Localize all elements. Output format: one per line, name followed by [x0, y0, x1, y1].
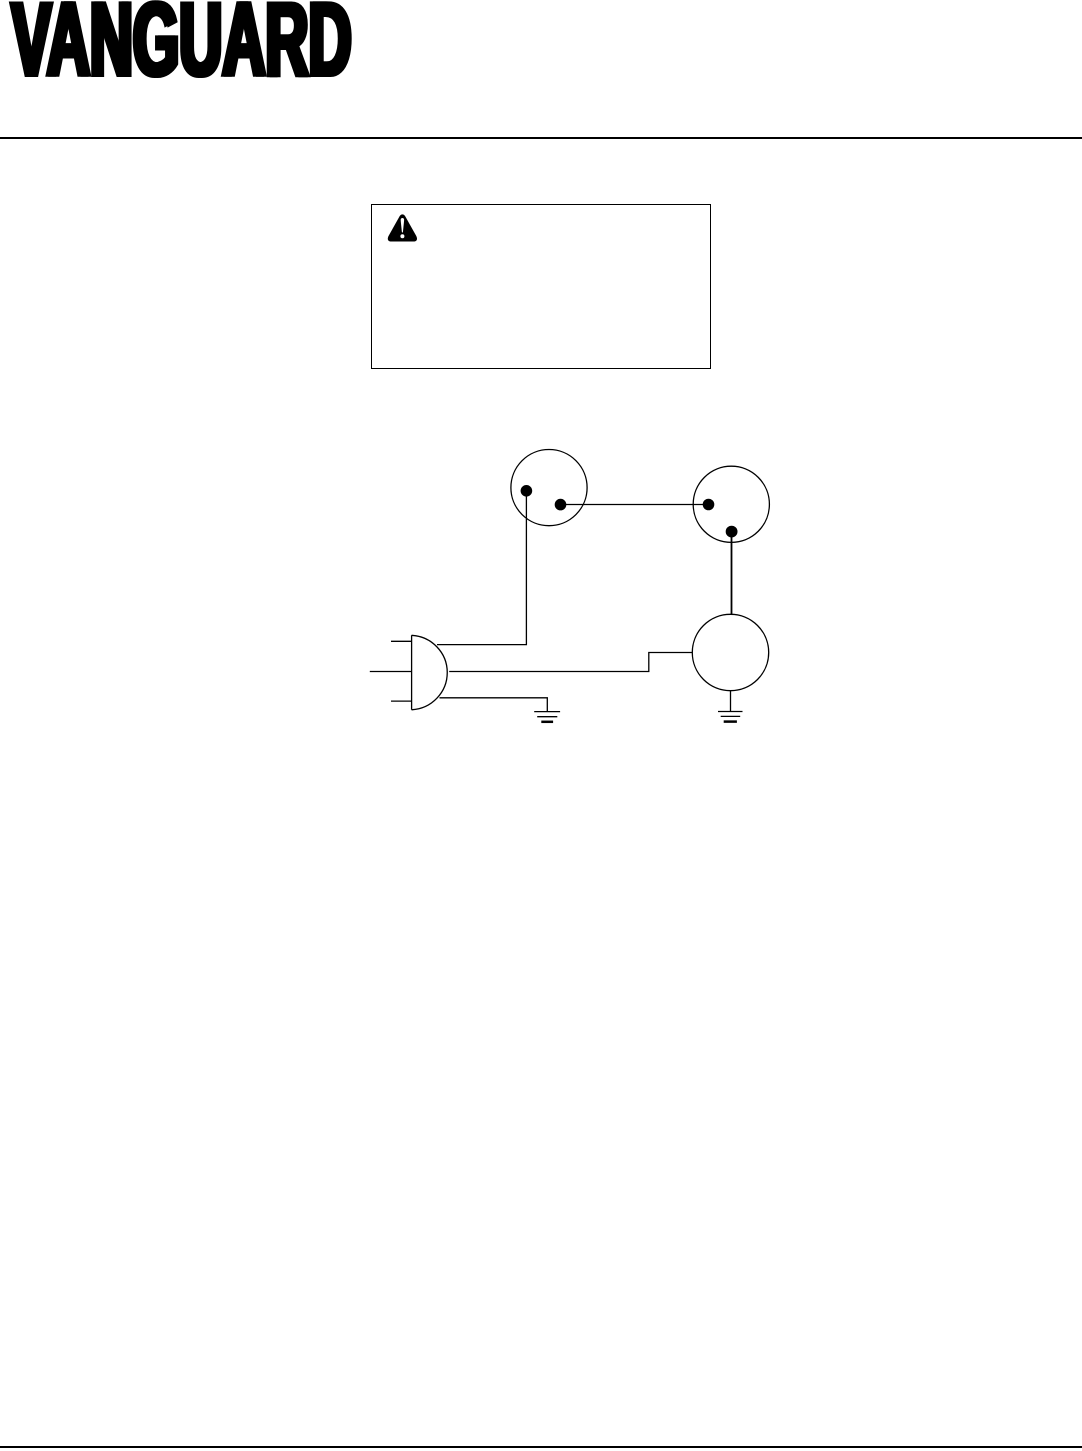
wire P3 to ground G2 — [730, 691, 732, 712]
plug PL1 body — [412, 635, 448, 710]
footer rule — [0, 1446, 1082, 1448]
plug prong middle — [370, 671, 412, 673]
connector circle P3 — [692, 614, 768, 690]
P2 pin 1 dot — [703, 499, 715, 511]
ground G1 — [534, 712, 560, 722]
wire plug to P3 — [449, 653, 692, 672]
P1 pin 1 dot — [521, 485, 533, 497]
wire plug to ground G1 — [440, 698, 548, 712]
ground G2 — [718, 712, 743, 722]
wire P1 pin to P2 pin — [561, 504, 709, 506]
header rule — [0, 137, 1082, 139]
wire P2 pin to P3 — [731, 532, 733, 615]
warning triangle icon — [387, 213, 418, 243]
P1 pin 2 dot — [555, 499, 567, 511]
P2 pin 2 dot — [726, 526, 738, 538]
connector circle P1 — [511, 450, 587, 526]
VANGUARD logo — [0, 0, 380, 90]
connector circle P2 — [693, 466, 769, 542]
wire plug to P1 pin — [437, 491, 526, 645]
plug prong top — [391, 640, 412, 642]
plug prong bottom — [391, 700, 412, 702]
warning box — [371, 204, 711, 369]
